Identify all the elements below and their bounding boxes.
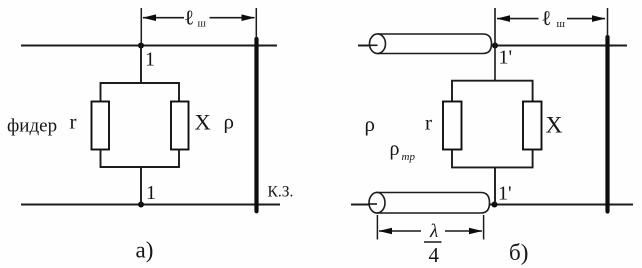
label ρтр (b) [390,138,416,163]
wire: feeder top conductor (a) [21,45,277,47]
resistor r (b) [443,102,462,150]
reactance X element (a) [171,102,189,150]
wire: stub stem to bottom node (a) [140,167,142,205]
node 1' (bottom, b) [492,202,498,208]
dimension line lsh left segment with arrow (a) [143,14,185,21]
svg-text:ρ: ρ [365,112,375,136]
reactance X element (b) [523,102,542,150]
coax transformer cylinder top (b) [370,34,492,54]
wire: bridge bottom rail (a) [101,150,180,168]
node 1' (top, b) [492,43,498,49]
wire: bridge bottom rail (b) [452,150,533,168]
svg-text:1: 1 [146,182,156,204]
svg-text:ш: ш [557,18,566,30]
svg-text:ℓ: ℓ [541,6,551,30]
svg-text:фидер: фидер [7,116,57,137]
wire: stub stem to bottom node (b) [494,167,496,204]
short-circuit bar K.Z. (a) [254,39,258,212]
dimension line lambda/4 right segment with arrow (b) [445,228,483,235]
wire: stub stem from top node (a) [140,46,142,84]
dimension extension line right (a) [255,8,257,38]
dimension line lsh right segment with arrow (b) [567,15,606,22]
coax transformer cylinder bottom (b) [369,192,490,213]
svg-text:тр: тр [402,151,416,163]
dimension line lsh right segment with arrow (a) [210,14,256,21]
svg-text:r: r [425,111,432,135]
wire: feeder bottom conductor (a) [21,204,280,206]
label λ/4 fraction (b) [424,221,442,267]
dimension line lambda/4 left segment with arrow (b) [379,228,422,235]
dimension extension line left (a) [140,8,142,46]
node 1 (bottom, a) [138,202,144,208]
wire: bridge top rail (a) [101,83,180,102]
svg-text:ρ: ρ [390,138,400,160]
svg-text:r: r [70,110,77,134]
svg-text:К.З.: К.З. [268,184,294,201]
wire: feeder bottom conductor (b) [351,204,633,206]
svg-text:λ: λ [429,221,438,242]
svg-text:X: X [195,110,211,135]
wire: bridge top rail (b) [452,81,533,102]
resistor r (a) [92,102,110,150]
svg-text:ℓ: ℓ [184,6,194,30]
svg-text:б): б) [509,240,528,265]
svg-text:ρ: ρ [224,110,234,134]
node 1 (top, a) [138,43,144,49]
svg-text:X: X [546,113,563,139]
svg-text:1': 1' [498,183,512,205]
dimension extension line right (b) [607,8,609,36]
svg-text:4: 4 [429,243,440,267]
svg-text:ш: ш [198,18,207,30]
svg-text:а): а) [136,238,154,263]
dimension extension line lambda/4 right (b) [483,215,485,240]
dimension extension line lambda/4 left (b) [376,215,378,240]
label ℓш (a) [184,6,207,30]
short-circuit bar (b) [605,37,609,212]
dimension line lsh left segment with arrow (b) [497,15,539,22]
wire: stem and dimension extension at node 1' (b) [494,8,496,81]
wire: feeder top conductor (b) [358,45,627,47]
svg-text:1': 1' [499,47,513,69]
svg-text:1: 1 [145,49,155,71]
label ℓш (b) [541,6,565,30]
